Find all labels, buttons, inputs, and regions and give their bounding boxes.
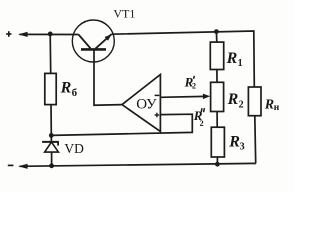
node junction dot top-left xyxy=(48,32,53,37)
wire R3 to bottom rail xyxy=(216,157,218,164)
wire zener to bottom rail xyxy=(51,152,53,166)
transistor VT1 emitter arrowhead xyxy=(105,34,112,41)
node + terminal arrowhead xyxy=(18,32,27,37)
svg-text:R: R xyxy=(264,97,274,112)
op-amp OY triangle xyxy=(122,75,160,132)
svg-text:R: R xyxy=(227,91,239,108)
svg-text:R: R xyxy=(226,50,238,67)
wiper arrowhead xyxy=(203,94,210,100)
wire Rb to reference node xyxy=(50,105,52,142)
svg-text:1: 1 xyxy=(238,58,243,69)
wire output to base xyxy=(94,50,122,105)
wire R1-R2 xyxy=(216,70,218,83)
svg-text:ОУ: ОУ xyxy=(136,96,157,112)
resistor R2 xyxy=(211,82,224,111)
diode VD zener cathode bar xyxy=(42,141,59,143)
wire reference to + input xyxy=(51,114,192,135)
node minus label xyxy=(8,164,14,166)
op-amp inverting sign xyxy=(155,94,160,96)
svg-text:2: 2 xyxy=(200,119,204,128)
wire top rail right segment xyxy=(112,31,255,87)
transistor VT1 circle xyxy=(72,20,114,62)
resistor R1 xyxy=(210,42,223,69)
svg-text:н: н xyxy=(274,103,280,113)
diode VD zener tick xyxy=(57,142,59,146)
transistor VT1 collector lead xyxy=(79,35,91,49)
wire stub to R1 xyxy=(215,32,217,42)
resistor R3 xyxy=(211,127,224,157)
node junction dot top chain xyxy=(214,29,219,34)
wire bottom rail xyxy=(20,163,256,166)
svg-text:2: 2 xyxy=(239,100,244,111)
op-amp noninverting sign xyxy=(155,114,160,116)
node plus label xyxy=(6,33,11,35)
svg-text:2: 2 xyxy=(192,82,196,91)
node junction dot bottom chain xyxy=(215,162,220,167)
svg-text:R: R xyxy=(60,80,72,97)
svg-text:б: б xyxy=(72,87,78,99)
svg-text:R: R xyxy=(228,134,240,151)
svg-text:VD: VD xyxy=(64,141,84,156)
svg-text:3: 3 xyxy=(240,142,245,153)
resistor Rb xyxy=(45,73,56,104)
node junction dot bottom-left xyxy=(49,163,54,168)
node - terminal arrowhead xyxy=(18,164,27,169)
wire R2-R3 xyxy=(216,112,218,128)
diode VD triangle xyxy=(45,142,59,152)
transistor VT1 base bar xyxy=(81,48,106,51)
wire top rail left segment xyxy=(20,33,79,35)
wire left branch upper xyxy=(49,34,52,74)
transistor VT1 emitter lead xyxy=(96,34,112,48)
wire Rn to bottom rail xyxy=(254,116,257,164)
wire wiper to R2 xyxy=(160,95,205,98)
node junction dot reference xyxy=(49,133,54,138)
svg-text:VT1: VT1 xyxy=(113,7,135,21)
resistor Rn load xyxy=(248,87,261,116)
